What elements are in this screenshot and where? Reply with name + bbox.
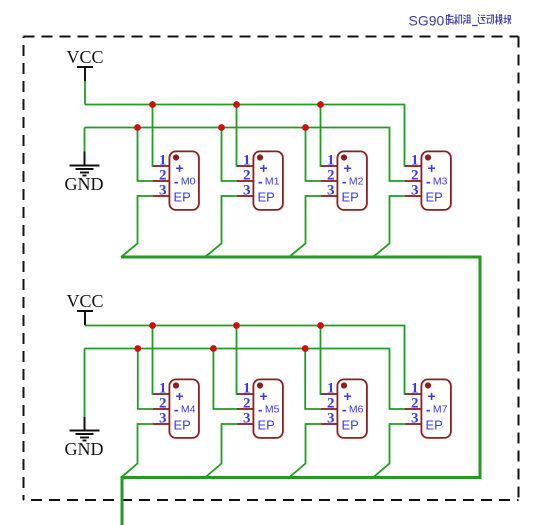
wire GND drop to M5 pin2 xyxy=(213,349,237,410)
bus wire (thick signal trunk) xyxy=(121,257,480,525)
power flag VCC (bottom) xyxy=(66,291,103,325)
junction node GND/M1 xyxy=(218,124,225,131)
title net label SG90舵机组_运动模块 xyxy=(409,13,512,29)
wire VCC drop to M0 pin1 xyxy=(152,105,155,167)
svg-text:SG90: SG90 xyxy=(409,13,445,29)
junction node VCC/M4 xyxy=(149,322,156,329)
connector M5 (SG90 servo header) xyxy=(237,379,283,438)
svg-text:VCC: VCC xyxy=(66,291,103,311)
wire GND rail xyxy=(85,349,406,410)
connector M6 (SG90 servo header) xyxy=(321,379,367,438)
junction node GND/M2 xyxy=(302,124,309,131)
svg-text:GND: GND xyxy=(65,439,104,459)
junction node VCC/M6 xyxy=(317,322,324,329)
junction node GND/M4 xyxy=(134,345,141,352)
wire signal M6 pin3 to bus xyxy=(289,424,321,478)
connector M7 (SG90 servo header) xyxy=(405,379,451,438)
svg-text:M7: M7 xyxy=(433,404,448,416)
wire VCC drop to M6 pin1 xyxy=(320,326,323,395)
wire VCC drop to M1 pin1 xyxy=(236,105,239,167)
wire GND drop to M4 pin2 xyxy=(138,349,153,410)
wire VCC drop to M2 pin1 xyxy=(320,105,323,167)
wire GND drop to M1 pin2 xyxy=(222,128,238,182)
wire VCC rail xyxy=(85,105,405,167)
wire VCC stem xyxy=(84,324,86,327)
wire signal M3 pin3 to bus xyxy=(373,196,405,257)
wire VCC stem xyxy=(84,81,86,105)
svg-text:M2: M2 xyxy=(349,176,364,188)
wire signal M0 pin3 to bus xyxy=(121,196,153,257)
wire GND drop to M2 pin2 xyxy=(306,128,322,182)
svg-text:VCC: VCC xyxy=(66,47,103,67)
wire VCC drop to M5 pin1 xyxy=(236,326,239,395)
ground symbol GND (top) xyxy=(65,152,104,195)
connector M0 (SG90 servo header) xyxy=(153,151,199,210)
svg-text:M6: M6 xyxy=(349,404,364,416)
connector M4 (SG90 servo header) xyxy=(153,379,199,438)
svg-text:M5: M5 xyxy=(265,404,280,416)
wire VCC rail xyxy=(85,326,405,395)
wire signal M4 pin3 to bus xyxy=(121,424,153,478)
junction node VCC/M1 xyxy=(233,101,240,108)
wire VCC drop to M4 pin1 xyxy=(152,326,155,395)
power flag VCC (top) xyxy=(66,47,103,81)
wire signal M2 pin3 to bus xyxy=(289,196,321,257)
wire GND stem xyxy=(84,349,86,418)
svg-text:GND: GND xyxy=(65,174,104,194)
svg-text:M3: M3 xyxy=(433,176,448,188)
junction node VCC/M5 xyxy=(233,322,240,329)
wire signal M1 pin3 to bus xyxy=(205,196,237,257)
svg-text:M1: M1 xyxy=(265,176,280,188)
svg-text:M4: M4 xyxy=(181,404,196,416)
junction node GND/M6 xyxy=(302,345,309,352)
wire signal M5 pin3 to bus xyxy=(205,424,237,478)
junction node GND/M5 xyxy=(210,345,217,352)
connector M2 (SG90 servo header) xyxy=(321,151,367,210)
junction node VCC/M0 xyxy=(149,101,156,108)
junction node VCC/M2 xyxy=(317,101,324,108)
svg-text:M0: M0 xyxy=(181,176,196,188)
wire GND stem xyxy=(84,128,86,152)
wire GND rail xyxy=(85,128,406,182)
wire GND drop to M6 pin2 xyxy=(305,349,321,410)
connector M3 (SG90 servo header) xyxy=(405,151,451,210)
wire GND drop to M0 pin2 xyxy=(138,128,154,182)
wire signal M7 pin3 to bus xyxy=(373,424,405,478)
ground symbol GND (bottom) xyxy=(65,417,104,459)
connector M1 (SG90 servo header) xyxy=(237,151,283,210)
junction node GND/M0 xyxy=(134,124,141,131)
